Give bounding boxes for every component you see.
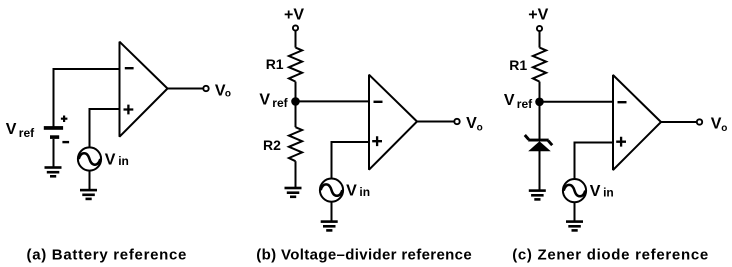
resistor R2 (b)	[289, 127, 302, 161]
svg-text:o: o	[477, 122, 483, 133]
op-amp U2 (b)	[369, 75, 417, 170]
output terminal (b)	[454, 119, 459, 124]
wire (c): R1 to Vref node	[539, 82, 541, 102]
op-amp U1 (a)	[120, 42, 168, 137]
label Vin (c)	[590, 183, 614, 200]
svg-text:+V: +V	[284, 6, 304, 23]
svg-text:V: V	[105, 152, 116, 169]
output terminal (a)	[203, 86, 208, 91]
op-amp U3 (c)	[613, 75, 661, 170]
terminal +V (b)	[293, 25, 298, 30]
ground (b): Vin	[321, 220, 338, 231]
wire (a): battery positive to inverting input	[54, 69, 121, 127]
label +V (b)	[284, 6, 304, 23]
label Vin (a)	[105, 152, 129, 169]
resistor R1 (c)	[533, 48, 546, 82]
label +V (c)	[528, 6, 548, 23]
svg-text:V: V	[504, 92, 515, 109]
svg-text:in: in	[118, 154, 129, 168]
label Vo (b)	[466, 115, 483, 133]
node Vref (b)	[291, 97, 300, 106]
svg-text:(c) Zener diode reference: (c) Zener diode reference	[512, 246, 709, 263]
zener diode D1 cathode bar	[525, 135, 552, 145]
ground (a): Vin	[80, 189, 97, 200]
op-amp U3 non-inverting input plus symbol	[616, 137, 626, 147]
label R2 (b)	[263, 137, 281, 153]
svg-text:V: V	[346, 183, 357, 200]
caption (b)	[256, 246, 472, 263]
wire (c): output	[661, 121, 697, 123]
caption (c)	[512, 246, 709, 263]
svg-text:o: o	[225, 89, 231, 100]
AC source Vin (a)	[78, 147, 101, 170]
label Vref (c)	[504, 92, 533, 111]
AC source Vin (b)	[320, 179, 343, 202]
svg-text:V: V	[590, 183, 601, 200]
op-amp U2 non-inverting input plus symbol	[372, 136, 382, 146]
node Vref (c)	[535, 98, 544, 107]
svg-text:R1: R1	[266, 56, 284, 72]
label Vref (b)	[259, 91, 288, 110]
wire (b): node to inverting input	[296, 100, 371, 102]
op-amp U3 inverting input minus symbol	[618, 101, 627, 103]
wire (b): output	[417, 121, 454, 123]
wire (b): R2 to ground	[295, 161, 297, 187]
label Vo (a)	[215, 82, 231, 99]
wire (b): node to R2	[295, 101, 297, 127]
battery B1 plus sign	[61, 116, 68, 123]
svg-text:R1: R1	[509, 57, 527, 73]
svg-text:ref: ref	[272, 96, 288, 110]
op-amp U1 non-inverting input plus symbol	[124, 105, 134, 115]
wire (b): Vin to ground	[331, 202, 333, 221]
wire (c): Vin to non-inverting input	[575, 143, 615, 179]
svg-text:(b) Voltage–divider reference: (b) Voltage–divider reference	[256, 246, 472, 263]
ground (a): battery	[45, 166, 62, 177]
op-amp U1 inverting input minus symbol	[125, 67, 134, 69]
svg-text:V: V	[259, 91, 270, 108]
svg-text:V: V	[466, 115, 477, 132]
wire (b): R1 to Vref node	[295, 82, 297, 102]
ground (b): divider	[285, 187, 302, 198]
svg-text:ref: ref	[517, 97, 533, 111]
svg-text:(a) Battery reference: (a) Battery reference	[27, 246, 188, 263]
op-amp U2 inverting input minus symbol	[374, 101, 383, 103]
wire (a): battery negative to ground	[53, 139, 55, 167]
label R1 (c)	[509, 57, 527, 73]
resistor R1 (b)	[289, 48, 302, 82]
svg-text:+V: +V	[528, 6, 548, 23]
svg-text:V: V	[711, 116, 722, 133]
label Vo (c)	[711, 116, 728, 135]
battery B1 negative plate	[50, 135, 59, 139]
svg-text:ref: ref	[19, 126, 35, 140]
svg-text:R2: R2	[263, 137, 281, 153]
wire (c): node to inverting input	[540, 101, 615, 103]
wire (b): terminal to R1	[295, 31, 297, 48]
svg-text:in: in	[603, 186, 614, 200]
wire (a): Vin to ground	[89, 171, 91, 190]
wire (a): Vin to non-inverting input	[90, 109, 121, 148]
svg-text:in: in	[359, 185, 370, 199]
terminal +V (c)	[537, 26, 542, 31]
ground (c): Vin	[566, 220, 583, 231]
label R1 (b)	[266, 56, 284, 72]
zener diode D1 anode triangle	[528, 141, 551, 151]
AC source Vin (c)	[563, 179, 586, 202]
svg-text:V: V	[6, 121, 17, 138]
wire (a): output	[168, 88, 204, 90]
wire (c): terminal to R1	[539, 32, 541, 48]
label Vref (a)	[6, 121, 35, 140]
wire (c): node to zener cathode	[539, 102, 541, 139]
ground (c): zener	[529, 189, 546, 200]
wire (c): Vin to ground	[574, 202, 576, 221]
wire (c): zener anode to ground	[539, 151, 541, 190]
battery B1 minus sign	[62, 141, 69, 143]
output terminal (c)	[697, 119, 702, 124]
battery B1 positive plate	[44, 126, 63, 130]
wire (b): Vin to non-inverting input	[332, 142, 371, 178]
caption (a)	[27, 246, 188, 263]
svg-text:o: o	[721, 123, 727, 134]
label Vin (b)	[346, 183, 370, 200]
